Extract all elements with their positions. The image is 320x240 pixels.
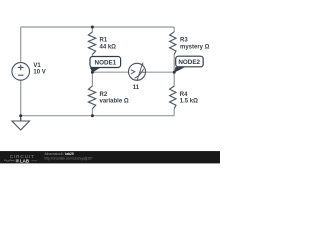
svg-text:44 kΩ: 44 kΩ [100,45,117,51]
svg-text:variable Ω: variable Ω [100,99,129,105]
svg-text:R2: R2 [100,92,108,98]
svg-text:mystery Ω: mystery Ω [180,45,210,51]
svg-text:R3: R3 [180,38,188,44]
svg-text:11: 11 [133,85,140,91]
svg-text:V1: V1 [33,63,41,69]
svg-text:10 V: 10 V [33,69,45,75]
svg-text:NODE2: NODE2 [178,59,200,66]
svg-text:R1: R1 [100,38,108,44]
svg-text:R4: R4 [180,92,188,98]
svg-text:Athanasios8 / lab25: Athanasios8 / lab25 [44,152,74,156]
svg-text:1.5 kΩ: 1.5 kΩ [180,99,198,105]
svg-text:LAB: LAB [20,158,29,163]
svg-text:http://circuitlab.com/c2a2vgq6: http://circuitlab.com/c2a2vgq6j357 [44,157,92,161]
svg-text:NODE1: NODE1 [95,60,117,67]
